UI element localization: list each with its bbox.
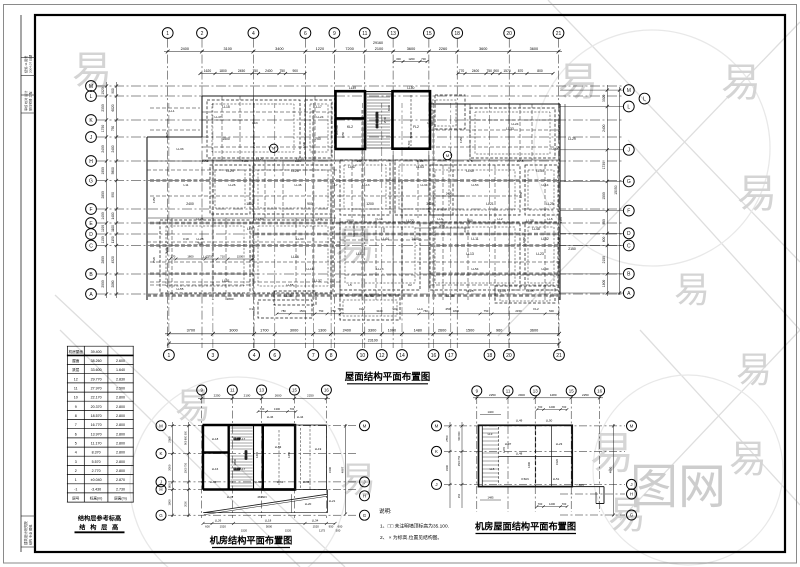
- svg-text:M: M: [627, 88, 631, 94]
- svg-text:3020: 3020: [602, 94, 606, 102]
- svg-text:3300: 3300: [445, 464, 449, 471]
- svg-text:2000: 2000: [101, 280, 105, 288]
- svg-text:LL44: LL44: [297, 415, 304, 419]
- svg-text:F: F: [89, 207, 92, 213]
- svg-text:3000: 3000: [290, 329, 298, 333]
- svg-text:9000,1600: 9000,1600: [352, 223, 356, 237]
- svg-text:15: 15: [569, 388, 574, 393]
- svg-text:FL2: FL2: [533, 307, 539, 311]
- svg-text:2.800: 2.800: [116, 396, 125, 400]
- svg-text:LL19: LL19: [446, 294, 454, 298]
- svg-text:5200: 5200: [409, 131, 413, 138]
- svg-text:750: 750: [331, 309, 336, 313]
- svg-text:18.570: 18.570: [91, 414, 102, 418]
- svg-text:LL25: LL25: [467, 289, 474, 293]
- svg-text:20: 20: [506, 353, 512, 359]
- svg-text:C: C: [627, 243, 631, 249]
- svg-text:6: 6: [304, 31, 307, 37]
- svg-text:LL9: LL9: [247, 227, 253, 231]
- svg-text:LL17: LL17: [239, 437, 246, 441]
- svg-text:LL48: LL48: [532, 227, 540, 231]
- svg-text:C: C: [89, 243, 93, 249]
- svg-text:48.8kN: 48.8kN: [257, 495, 266, 499]
- svg-text:7100: 7100: [242, 159, 249, 163]
- svg-text:LL53: LL53: [472, 183, 479, 187]
- svg-text:屋面: 屋面: [72, 358, 80, 363]
- svg-text:900: 900: [307, 202, 313, 206]
- svg-text:39.400: 39.400: [91, 350, 102, 354]
- svg-text:900: 900: [392, 307, 397, 311]
- svg-text:1500: 1500: [466, 329, 474, 333]
- svg-text:LL48: LL48: [552, 147, 559, 151]
- svg-text:1220: 1220: [316, 47, 324, 51]
- labels above top wall: [349, 86, 415, 90]
- svg-text:1750: 1750: [101, 125, 105, 133]
- svg-text:1200: 1200: [549, 405, 555, 409]
- svg-text:M: M: [630, 424, 634, 429]
- svg-text:结构层参考标高: 结构层参考标高: [78, 515, 121, 523]
- svg-text:6020: 6020: [111, 104, 115, 111]
- svg-text:1800: 1800: [453, 309, 460, 313]
- svg-text:4: 4: [252, 31, 255, 37]
- main plan extra labels: [165, 104, 561, 311]
- svg-text:2100: 2100: [244, 394, 251, 398]
- svg-text:2900: 2900: [518, 393, 525, 397]
- svg-text:3600: 3600: [530, 329, 538, 333]
- table caption: [75, 515, 125, 533]
- plan2 right wing walls: [279, 425, 326, 490]
- svg-text:易: 易: [729, 439, 767, 481]
- svg-text:LL41: LL41: [210, 480, 217, 484]
- svg-text:LL40: LL40: [466, 169, 474, 173]
- svg-text:950: 950: [602, 219, 606, 225]
- svg-text:700: 700: [290, 407, 295, 411]
- svg-text:LL26: LL26: [291, 169, 299, 173]
- svg-text:LL44: LL44: [381, 237, 389, 241]
- svg-text:层高(m): 层高(m): [114, 496, 127, 501]
- svg-text:760: 760: [250, 254, 255, 258]
- svg-text:机房屋面: 机房屋面: [69, 349, 84, 354]
- svg-text:3600: 3600: [530, 47, 538, 51]
- svg-text:1200: 1200: [408, 57, 415, 61]
- svg-text:1170: 1170: [559, 217, 563, 223]
- svg-text:23100: 23100: [368, 339, 378, 343]
- svg-text:2.800: 2.800: [116, 423, 125, 427]
- plan2 left dimension columns: [167, 422, 190, 517]
- svg-text:300 300: 300 300: [245, 450, 248, 460]
- svg-text:9: 9: [333, 31, 336, 37]
- svg-text:4: 4: [253, 353, 256, 359]
- notes: [379, 507, 449, 541]
- svg-text:1500 750: 1500 750: [458, 455, 461, 466]
- svg-text:±0.040: ±0.040: [91, 478, 102, 482]
- svg-text:3600: 3600: [479, 47, 487, 51]
- svg-text:LL33: LL33: [177, 147, 184, 151]
- svg-text:LL30: LL30: [297, 237, 304, 241]
- svg-text:9: 9: [75, 405, 77, 409]
- svg-text:H: H: [89, 159, 93, 165]
- svg-text:1570: 1570: [503, 69, 511, 73]
- svg-text:建筑设计研究院: 建筑设计研究院: [23, 521, 28, 545]
- svg-text:LL11: LL11: [471, 237, 478, 241]
- svg-text:LL14: LL14: [542, 183, 549, 187]
- svg-text:易: 易: [737, 172, 777, 216]
- svg-text:700: 700: [421, 57, 426, 61]
- svg-text:LL46: LL46: [291, 255, 299, 259]
- svg-text:2.870: 2.870: [116, 478, 125, 482]
- svg-text:11.170: 11.170: [91, 442, 102, 446]
- svg-text:3100: 3100: [223, 47, 231, 51]
- svg-text:FL2: FL2: [413, 125, 419, 129]
- svg-text:1、□□ 未注明墙顶标高为35.100.: 1、□□ 未注明墙顶标高为35.100.: [380, 523, 449, 530]
- svg-text:13: 13: [390, 31, 396, 37]
- svg-text:易: 易: [558, 60, 598, 104]
- plan3 left dimension column: [445, 422, 464, 508]
- svg-text:F18: F18: [183, 237, 189, 241]
- svg-text:跃层: 跃层: [72, 367, 80, 372]
- svg-text:-3.430: -3.430: [91, 487, 101, 491]
- svg-text:结构 专业 图纸: 结构 专业 图纸: [28, 525, 33, 545]
- plan3 top dimension row: [473, 393, 603, 414]
- svg-text:H: H: [363, 493, 366, 498]
- svg-text:1150: 1150: [152, 197, 156, 203]
- svg-text:750: 750: [209, 254, 214, 258]
- svg-text:结 构 层 高: 结 构 层 高: [79, 524, 119, 532]
- svg-text:12: 12: [74, 377, 78, 381]
- svg-text:LL20: LL20: [305, 502, 312, 506]
- svg-text:LL24: LL24: [197, 217, 204, 221]
- svg-text:5: 5: [75, 442, 77, 446]
- svg-text:5800: 5800: [111, 167, 115, 174]
- main plan building outline: [147, 92, 565, 300]
- svg-text:屋面结构平面布置图: 屋面结构平面布置图: [345, 371, 431, 383]
- plan3 right axis circles: [627, 421, 637, 520]
- svg-text:G: G: [630, 513, 634, 518]
- svg-text:300: 300: [396, 57, 401, 61]
- svg-text:3: 3: [75, 460, 77, 464]
- svg-text:750: 750: [252, 69, 258, 73]
- svg-text:16.770: 16.770: [91, 423, 102, 427]
- svg-text:2150: 2150: [602, 256, 606, 264]
- svg-text:2850: 2850: [101, 256, 105, 264]
- svg-text:1500: 1500: [237, 254, 244, 258]
- svg-text:2004.07 日期: 2004.07 日期: [28, 55, 33, 73]
- svg-text:1930: 1930: [252, 141, 256, 148]
- svg-text:LL13: LL13: [363, 183, 370, 187]
- svg-text:3000: 3000: [167, 464, 171, 471]
- svg-text:1900: 1900: [346, 219, 354, 223]
- svg-text:900: 900: [493, 69, 499, 73]
- svg-text:21: 21: [556, 31, 562, 37]
- shaft walls 2: [393, 91, 431, 149]
- svg-text:M: M: [363, 423, 367, 428]
- svg-text:G: G: [363, 513, 367, 518]
- plan2 top dimension row: [198, 394, 330, 413]
- svg-text:LL21: LL21: [329, 499, 336, 503]
- svg-text:LL3: LL3: [488, 432, 493, 436]
- svg-text:H: H: [630, 492, 633, 497]
- svg-text:LL47: LL47: [227, 495, 234, 499]
- plan2 right dimension column: [340, 424, 347, 516]
- main plan bottom axis circles: [164, 350, 565, 361]
- svg-text:14: 14: [399, 353, 405, 359]
- svg-text:800: 800: [167, 483, 171, 488]
- svg-text:1800: 1800: [219, 69, 227, 73]
- svg-text:M: M: [159, 423, 163, 428]
- svg-text:K: K: [160, 451, 163, 456]
- svg-text:LL25: LL25: [546, 202, 554, 206]
- svg-text:1800: 1800: [246, 202, 254, 206]
- svg-text:机房屋面结构平面布置图: 机房屋面结构平面布置图: [475, 521, 576, 532]
- svg-text:2400: 2400: [181, 47, 189, 51]
- svg-text:LL55: LL55: [177, 287, 184, 291]
- svg-text:750: 750: [337, 307, 342, 311]
- svg-text:LL23: LL23: [377, 267, 384, 271]
- svg-text:2350: 2350: [101, 104, 105, 112]
- svg-text:1520: 1520: [555, 459, 559, 465]
- plan3 bottom dimension row: [480, 495, 568, 507]
- svg-text:11: 11: [506, 388, 511, 393]
- svg-text:LL34: LL34: [536, 169, 544, 173]
- svg-text:950: 950: [329, 525, 334, 529]
- svg-text:2.500: 2.500: [116, 387, 125, 391]
- svg-text:2-A1: 2-A1: [202, 159, 209, 163]
- svg-text:2400: 2400: [186, 202, 194, 206]
- svg-text:2100: 2100: [375, 47, 383, 51]
- main plan right dimension column: [560, 85, 623, 296]
- svg-text:1300: 1300: [318, 329, 326, 333]
- svg-text:J: J: [630, 482, 632, 487]
- svg-text:M: M: [446, 153, 449, 158]
- svg-text:L: L: [90, 94, 93, 100]
- main plan mid beam lines: [147, 96, 560, 300]
- svg-text:LL23: LL23: [536, 252, 544, 256]
- svg-text:13: 13: [533, 388, 538, 393]
- svg-text:F: F: [627, 208, 630, 214]
- svg-text:图网: 图网: [630, 461, 726, 514]
- svg-text:1500 750: 1500 750: [184, 462, 187, 473]
- svg-text:1400: 1400: [111, 212, 115, 219]
- svg-text:3: 3: [212, 353, 215, 359]
- watermark yi glyphs: [72, 49, 777, 537]
- svg-text:800: 800: [537, 69, 543, 73]
- svg-text:3000: 3000: [426, 202, 434, 206]
- svg-text:1520: 1520: [165, 131, 169, 138]
- svg-text:LL24: LL24: [226, 169, 234, 173]
- svg-text:1520: 1520: [220, 525, 227, 529]
- plan2 vertical axis lines: [202, 396, 327, 519]
- svg-text:2.800: 2.800: [116, 405, 125, 409]
- svg-text:750: 750: [111, 126, 115, 132]
- svg-text:-1: -1: [74, 487, 77, 491]
- svg-text:M: M: [272, 146, 275, 151]
- svg-text:D: D: [627, 231, 631, 237]
- svg-text:575: 575: [467, 159, 472, 163]
- svg-text:7: 7: [75, 423, 77, 427]
- svg-text:780: 780: [281, 309, 286, 313]
- svg-text:750: 750: [279, 69, 285, 73]
- svg-text:1520: 1520: [285, 529, 292, 533]
- svg-text:1800: 1800: [187, 254, 194, 258]
- svg-text:2150: 2150: [568, 247, 576, 251]
- svg-text:5.570: 5.570: [92, 460, 101, 464]
- plan2 stair treads: [231, 428, 253, 486]
- svg-text:K2: K2: [408, 283, 412, 287]
- svg-text:标高(m): 标高(m): [90, 496, 103, 501]
- svg-text:18: 18: [487, 353, 493, 359]
- svg-text:LL43: LL43: [201, 255, 209, 259]
- plan2 small labels: [210, 415, 336, 506]
- svg-text:4: 4: [75, 451, 77, 455]
- svg-text:500: 500: [336, 529, 341, 533]
- svg-text:700: 700: [260, 407, 265, 411]
- svg-text:LL23: LL23: [556, 442, 563, 446]
- svg-text:1150: 1150: [101, 236, 105, 243]
- svg-text:1200: 1200: [366, 202, 374, 206]
- svg-text:750: 750: [486, 69, 492, 73]
- svg-text:LL51: LL51: [553, 477, 560, 481]
- plan2 caption: [210, 535, 293, 548]
- svg-text:4520: 4520: [111, 256, 115, 263]
- plan2 top axis circles: [197, 385, 332, 395]
- svg-text:LL16: LL16: [212, 467, 219, 471]
- svg-text:LL50: LL50: [546, 419, 553, 423]
- svg-text:1400: 1400: [255, 452, 259, 458]
- svg-text:500: 500: [549, 309, 554, 313]
- svg-text:LL54: LL54: [356, 252, 364, 256]
- svg-text:易: 易: [721, 61, 761, 105]
- svg-text:LL53: LL53: [275, 445, 282, 449]
- main plan interior rooms: [160, 95, 558, 320]
- svg-text:G: G: [89, 178, 93, 184]
- svg-text:900 600: 900 600: [458, 431, 461, 441]
- svg-text:15050: 15050: [614, 185, 618, 195]
- svg-text:600: 600: [602, 236, 606, 242]
- svg-text:8100: 8100: [387, 104, 391, 111]
- svg-text:LL54: LL54: [472, 267, 479, 271]
- svg-text:760: 760: [423, 309, 428, 313]
- svg-text:2.770: 2.770: [92, 469, 101, 473]
- svg-text:LL50: LL50: [407, 86, 414, 90]
- svg-text:1150: 1150: [459, 137, 463, 143]
- svg-text:33.600: 33.600: [91, 368, 102, 372]
- svg-text:L: L: [627, 104, 630, 110]
- svg-text:7: 7: [312, 353, 315, 359]
- svg-text:结施-11 图号: 结施-11 图号: [23, 56, 28, 73]
- svg-text:LL46: LL46: [267, 415, 274, 419]
- svg-text:LL29: LL29: [568, 137, 576, 141]
- svg-text:LL53: LL53: [416, 165, 424, 169]
- svg-text:75,700: 75,700: [407, 140, 411, 149]
- main plan left axis circles: [86, 81, 97, 300]
- svg-text:F11: F11: [249, 307, 254, 311]
- svg-text:2.800: 2.800: [116, 460, 125, 464]
- svg-text:16: 16: [431, 353, 437, 359]
- svg-text:750: 750: [484, 309, 489, 313]
- svg-text:LL17: LL17: [239, 467, 246, 471]
- svg-text:2.730: 2.730: [116, 487, 125, 491]
- svg-text:LL34: LL34: [421, 183, 428, 187]
- svg-text:LL33: LL33: [506, 127, 514, 131]
- svg-text:L3: L3: [318, 217, 322, 221]
- svg-text:2260: 2260: [439, 47, 447, 51]
- svg-text:12: 12: [379, 353, 385, 359]
- svg-text:1100: 1100: [101, 225, 105, 232]
- svg-text:1150: 1150: [111, 236, 115, 243]
- svg-text:1650: 1650: [341, 131, 345, 138]
- plan2 left axis circles: [156, 421, 166, 521]
- svg-text:2250: 2250: [214, 394, 221, 398]
- svg-text:易: 易: [175, 385, 211, 426]
- svg-text:L13: L13: [377, 217, 382, 221]
- main plan horizontal axis lines: [97, 86, 622, 294]
- svg-text:2600: 2600: [438, 329, 446, 333]
- svg-text:LL38: LL38: [526, 219, 534, 223]
- main plan left dimension columns: [101, 82, 118, 298]
- svg-text:LL13: LL13: [466, 252, 474, 256]
- svg-text:G: G: [159, 513, 163, 518]
- svg-text:LL43: LL43: [303, 480, 310, 484]
- main plan vertical axis lines: [168, 39, 559, 348]
- svg-text:LL14: LL14: [498, 289, 506, 293]
- svg-text:1730: 1730: [602, 162, 606, 170]
- svg-text:2150: 2150: [515, 309, 522, 313]
- svg-text:3300: 3300: [368, 329, 376, 333]
- plan3 horizontal axis lines: [444, 426, 625, 515]
- svg-text:LL37: LL37: [314, 279, 322, 283]
- svg-text:机房结构平面布置图: 机房结构平面布置图: [210, 535, 293, 546]
- svg-text:LL49: LL49: [349, 86, 356, 90]
- svg-text:7.5kN: 7.5kN: [576, 483, 584, 487]
- svg-text:1500: 1500: [602, 192, 606, 200]
- svg-text:20.370: 20.370: [91, 405, 102, 409]
- svg-text:LL42: LL42: [255, 480, 262, 484]
- svg-text:900: 900: [111, 88, 115, 94]
- svg-text:LL4: LL4: [417, 307, 422, 311]
- svg-text:M: M: [89, 84, 93, 90]
- svg-text:L13: L13: [252, 121, 257, 125]
- svg-text:7200: 7200: [345, 47, 353, 51]
- svg-text:J: J: [363, 480, 365, 485]
- svg-text:2.800: 2.800: [116, 469, 125, 473]
- svg-text:16: 16: [597, 388, 602, 393]
- svg-text:2.800: 2.800: [116, 414, 125, 418]
- svg-text:LL19: LL19: [307, 267, 314, 271]
- svg-text:1200: 1200: [549, 502, 555, 506]
- svg-text:LL17: LL17: [314, 105, 322, 109]
- main plan top axis circles: [162, 28, 564, 39]
- svg-text:13.970: 13.970: [91, 432, 102, 436]
- svg-text:13: 13: [259, 388, 264, 393]
- svg-text:2、 × 为标高,位置见结构图。: 2、 × 为标高,位置见结构图。: [380, 534, 442, 541]
- svg-text:FL2: FL2: [359, 307, 365, 311]
- svg-text:1480: 1480: [414, 329, 422, 333]
- svg-text:LL34: LL34: [312, 519, 319, 523]
- svg-text:2: 2: [201, 31, 204, 37]
- svg-text:LL9: LL9: [427, 121, 432, 125]
- plan2 horizontal axis lines: [168, 426, 358, 516]
- svg-text:1000: 1000: [388, 329, 396, 333]
- svg-text:1230: 1230: [302, 141, 306, 148]
- svg-text:2250: 2250: [582, 393, 589, 397]
- shaft walls 1: [336, 91, 366, 149]
- svg-text:1100: 1100: [295, 159, 302, 163]
- svg-text:M: M: [435, 424, 439, 429]
- svg-text:LL19: LL19: [315, 447, 322, 451]
- main plan bottom dimension row: [165, 329, 561, 346]
- svg-text:600: 600: [382, 227, 386, 232]
- svg-text:1300: 1300: [274, 407, 280, 411]
